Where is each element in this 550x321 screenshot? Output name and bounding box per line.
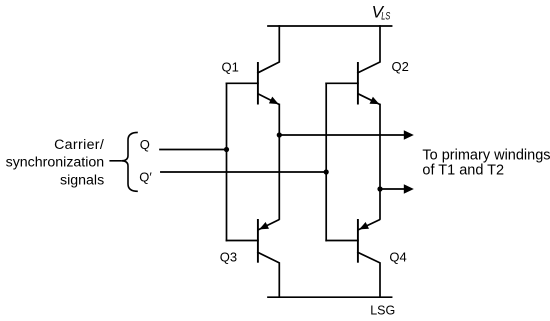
wire: Q1 base lead [227,82,258,84]
svg-text:Q2: Q2 [392,59,409,74]
svg-text:LSG: LSG [370,304,395,318]
transistor Q1 (NPN, high side left) [258,62,279,105]
svg-text:Q4: Q4 [389,249,406,264]
wire: top supply rail VLS [268,25,392,27]
wire: Q2/Q4 base vertical line [325,83,327,240]
transistor Q3 (PNP, low side left) [258,219,279,263]
dash from text to brace [109,160,121,162]
transistor Q2 (NPN, high side right) [358,62,380,105]
wire: bottom rail LSG [268,296,392,298]
svg-text:of T1 and T2: of T1 and T2 [422,162,504,178]
wire: Q3 base lead [227,240,258,242]
svg-text:To primary windings: To primary windings [422,147,550,163]
arrowhead: output 2 [404,184,414,193]
junction dot: Q to Q1/Q3 base line [224,147,229,152]
junction dot: output 2 node [377,186,382,191]
svg-text:Q: Q [140,137,150,152]
svg-text:LS: LS [381,10,391,22]
wire: output 2 to primary windings [380,188,405,190]
transistor Q4 (PNP, low side right) [358,219,380,263]
junction dot: Q' to Q2/Q4 base line [324,169,329,174]
wire: Q1/Q3 base vertical line [226,83,228,240]
wire: VLS drop to Q2 collector [358,26,380,73]
wire: Q1 emitter / Q3 emitter vertical (output node 1) [278,105,280,220]
wire: Q4 base lead [326,240,358,242]
svg-text:Q′: Q′ [139,169,152,184]
wire: output 1 to primary windings [279,134,405,136]
brace for carrier/sync signals [121,132,137,191]
wire: Q' input signal line [161,171,326,173]
wire: Q2 base lead [326,82,358,84]
svg-text:Q1: Q1 [222,59,239,74]
wire: Q input signal line [160,149,227,151]
svg-text:signals: signals [60,173,104,189]
wire: Q4 collector to LSG rail [358,252,380,297]
wire: VLS drop to Q1 collector [258,26,279,73]
svg-text:Carrier/: Carrier/ [54,137,104,153]
wire: Q2 emitter / Q4 emitter vertical (output node 2) [379,105,381,220]
junction dot: output 1 node [277,132,282,137]
svg-text:Q3: Q3 [220,249,237,264]
arrowhead: output 1 [404,130,414,139]
wire: Q3 collector to LSG rail [258,252,279,297]
svg-text:synchronization: synchronization [6,155,105,171]
